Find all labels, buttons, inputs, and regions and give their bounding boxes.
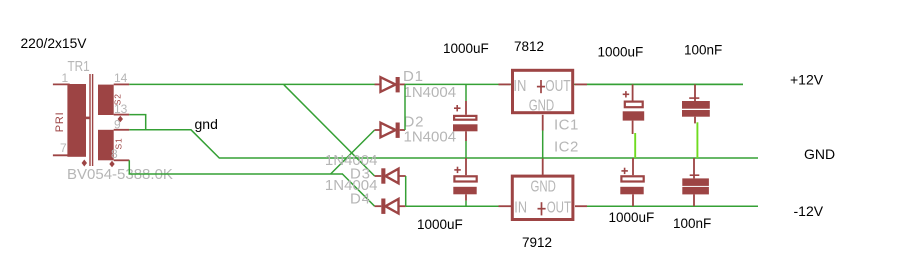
svg-text:7: 7	[60, 141, 67, 155]
diode D1	[375, 77, 405, 92]
capacitor C1 1000uF input top	[453, 84, 478, 158]
capacitor C6 100nF output bottom	[682, 158, 709, 206]
wire +12V rail out of IC1	[587, 83, 743, 85]
capacitor C2 1000uF input bottom	[453, 158, 476, 206]
svg-text:+12V: +12V	[790, 72, 824, 88]
wire -12V row to 7912 IN	[406, 205, 499, 207]
svg-text:13: 13	[114, 102, 128, 116]
wire gnd from pin 9	[129, 130, 758, 158]
wire diagonal phase B to D4	[342, 174, 374, 206]
transformer pin 14	[114, 71, 130, 85]
S2 polarity diamond	[118, 116, 123, 122]
wire diagonal phase A to D3	[284, 85, 375, 176]
svg-text:220/2x15V: 220/2x15V	[21, 36, 88, 51]
transformer secondary winding S2	[98, 85, 123, 115]
IC1 OUT pin	[575, 83, 587, 85]
svg-text:D1: D1	[403, 68, 423, 85]
svg-text:1000uF: 1000uF	[609, 210, 655, 225]
capacitor C4 1000uF output bottom	[620, 158, 643, 206]
wire phase B from pin 8	[129, 160, 343, 174]
IC2 IN pin	[499, 205, 512, 207]
svg-text:IN: IN	[514, 199, 527, 216]
svg-text:GND: GND	[529, 98, 555, 115]
wire D3 anode down to -12V row	[405, 176, 407, 206]
svg-text:100nF: 100nF	[684, 43, 722, 58]
svg-text:IC1: IC1	[554, 117, 579, 134]
svg-text:-12V: -12V	[794, 203, 824, 219]
transformer pin 13	[114, 102, 130, 116]
svg-text:PRI: PRI	[54, 112, 66, 133]
svg-text:1000uF: 1000uF	[598, 45, 644, 60]
diode D2	[375, 123, 405, 138]
svg-text:OUT: OUT	[545, 78, 571, 95]
svg-text:9: 9	[114, 118, 121, 132]
transformer pin 7	[53, 141, 70, 155]
wire gnd from pin 13 step	[129, 115, 145, 130]
svg-text:7912: 7912	[522, 235, 552, 250]
wire D2 cathode up to +12V rail	[404, 84, 406, 130]
diode D3	[375, 168, 406, 183]
svg-text:14: 14	[114, 71, 128, 85]
svg-text:TR1: TR1	[68, 58, 90, 75]
capacitor C5 100nF output top	[682, 84, 710, 158]
svg-text:1000uF: 1000uF	[417, 217, 463, 232]
transformer secondary winding S1	[98, 130, 124, 161]
svg-text:1000uF: 1000uF	[443, 41, 489, 56]
voltage regulator IC1 7812 box	[513, 70, 573, 114]
primary polarity diamond	[82, 160, 87, 167]
svg-text:gnd: gnd	[195, 116, 218, 132]
voltage regulator IC2 7912 box	[512, 176, 573, 219]
IC2 GND pin	[542, 159, 544, 175]
wire +12V rail from D1 to end	[405, 83, 743, 85]
svg-text:7812: 7812	[514, 39, 544, 54]
transformer pin 9	[114, 118, 130, 132]
svg-text:IC2: IC2	[554, 139, 579, 156]
wire diagonal phase B to D2	[331, 130, 375, 174]
svg-text:1N4004: 1N4004	[404, 84, 457, 101]
svg-text:GND: GND	[804, 146, 835, 162]
svg-text:D4: D4	[350, 191, 370, 208]
capacitor C3 1000uF output top	[623, 84, 645, 158]
diode D4	[375, 199, 406, 214]
IC1 GND pin	[542, 115, 544, 158]
svg-text:1N4004: 1N4004	[404, 129, 457, 146]
transformer core	[90, 74, 93, 166]
transformer pin 8	[111, 147, 129, 161]
svg-text:1: 1	[62, 71, 69, 85]
S1 polarity diamond	[109, 161, 114, 167]
IC2 OUT pin	[575, 205, 587, 207]
svg-text:IN: IN	[513, 78, 526, 95]
transformer pin 1	[53, 71, 70, 85]
svg-text:GND: GND	[531, 179, 556, 196]
IC1 IN pin	[499, 83, 511, 85]
svg-text:OUT: OUT	[547, 199, 572, 216]
svg-text:8: 8	[111, 147, 118, 161]
svg-text:100nF: 100nF	[673, 216, 711, 231]
wire -12V rail out of IC2	[587, 205, 758, 207]
wire phase A from pin 14 to D1	[129, 83, 375, 85]
transformer TR1 primary winding PRI	[54, 84, 89, 157]
